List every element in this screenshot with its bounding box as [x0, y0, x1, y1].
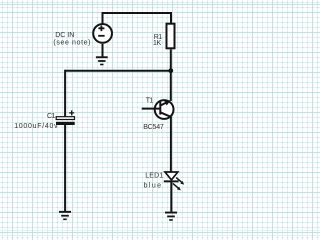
svg-text:LED1: LED1 — [145, 173, 163, 180]
svg-text:T1: T1 — [146, 97, 154, 104]
svg-text:1K: 1K — [153, 40, 161, 47]
svg-text:blue: blue — [144, 183, 163, 190]
svg-text:BC547: BC547 — [143, 124, 164, 131]
svg-text:C1: C1 — [47, 113, 56, 120]
svg-text:DC IN: DC IN — [55, 32, 74, 39]
svg-text:(see note): (see note) — [53, 40, 91, 47]
svg-text:1000uF/40v: 1000uF/40v — [14, 123, 58, 130]
